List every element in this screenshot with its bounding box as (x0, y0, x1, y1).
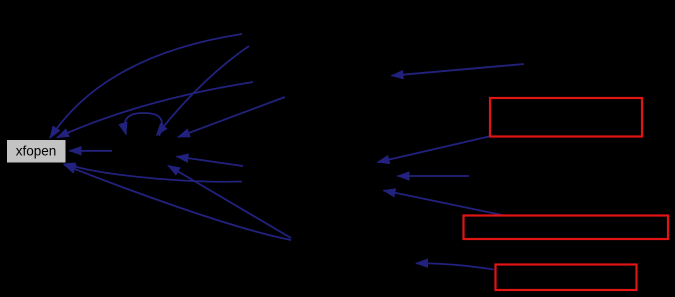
wire edge bottom node to xfopen corner (64, 165, 291, 240)
wire edge red box3 to bottom node (416, 263, 494, 269)
wire edge node A to hub1 (157, 46, 250, 135)
wire edge node W2 to xfopen corner (64, 163, 243, 182)
wire edge red box1 to node W1 (378, 137, 490, 163)
wire edge node B to hub1 top-right (178, 97, 285, 137)
wire edge bottom node to hub1 bottom (168, 166, 291, 239)
red node box2 (464, 216, 669, 240)
wire edge node W1 to hub1 right (177, 157, 244, 167)
wire edge right node to node W2 (398, 175, 470, 177)
red node box3 (496, 265, 637, 291)
node xfopen (7, 140, 67, 164)
wire edge top-right node to top node (392, 64, 525, 76)
red node box1 (490, 98, 642, 137)
wire edge hub1 to xfopen (70, 150, 113, 152)
wire edge E3 from node B to xfopen (57, 82, 253, 138)
wire edge red box2 to node W2 (384, 190, 503, 215)
wire edge E1 from node A to xfopen (50, 34, 242, 138)
svg-text:xfopen: xfopen (16, 144, 57, 159)
wire self-loop on hub1 (125, 113, 162, 136)
